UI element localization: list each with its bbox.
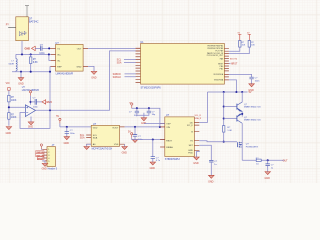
svg-text:DD: DD: [190, 122, 194, 124]
svg-text:VIN: VIN: [6, 83, 10, 85]
capacitor C? 1u at SET: [209, 160, 213, 162]
svg-text:MCP4725A0T-E/CH: MCP4725A0T-E/CH: [92, 148, 113, 151]
svg-text:BOOT0: BOOT0: [230, 58, 238, 60]
ground GND below op-amp: [30, 117, 32, 122]
svg-text:GND: GND: [193, 162, 199, 165]
wire driver SET to C? 1u: [199, 145, 211, 160]
svg-text:100K: 100K: [11, 100, 17, 102]
wire base rail: [223, 92, 225, 126]
MCU U1 left pin names: [0, 0, 1, 1]
resistor R? inline on OUT: [256, 159, 261, 161]
svg-text:100n: 100n: [255, 80, 261, 82]
svg-text:1.0K: 1.0K: [227, 130, 232, 132]
svg-text:ST8R00W05J: ST8R00W05J: [165, 158, 181, 161]
svg-text:OUT: OUT: [283, 159, 289, 162]
svg-text:REF: REF: [57, 66, 62, 68]
svg-text:VOUT: VOUT: [112, 127, 119, 129]
ground at driver GND pin: [197, 151, 200, 157]
svg-text:RBIAS: RBIAS: [166, 146, 173, 149]
svg-text:5V: 5V: [249, 91, 252, 94]
svg-text:MMBT3904LT1G: MMBT3904LT1G: [244, 107, 261, 109]
svg-text:Header 5: Header 5: [48, 168, 58, 171]
transistor Q? PNP: [224, 118, 237, 120]
wire MOSFET source to OUT: [242, 159, 284, 161]
wire driver YS to MOSFET gate: [199, 141, 237, 142]
ferrite bead FB?: [15, 54, 17, 58]
svg-text:100n: 100n: [70, 133, 76, 135]
ground at 4.7u cap: [150, 162, 156, 165]
wire VSS to 5V rail: [229, 80, 237, 92]
svg-text:PGD: PGD: [188, 152, 193, 154]
svg-text:GND: GND: [64, 142, 70, 145]
svg-text:GND: GND: [265, 177, 271, 180]
wire 5V rail to DAC VDD: [60, 126, 91, 128]
svg-text:VDD/VDDA: VDD/VDDA: [213, 73, 224, 76]
capacitor C? 100n at VOUT: [134, 127, 136, 135]
svg-text:VIN: VIN: [166, 127, 170, 129]
svg-text:LM4041AIDBVR: LM4041AIDBVR: [56, 72, 74, 75]
svg-text:SWCLK: SWCLK: [113, 76, 122, 79]
svg-text:SDA: SDA: [93, 136, 98, 139]
svg-text:GND: GND: [91, 77, 97, 80]
ground at VOUT cap: [132, 140, 138, 143]
wire VSP to GND: [144, 123, 165, 125]
wire op-amp output to MCU pin2: [36, 51, 137, 110]
power 5V of DAC: [59, 118, 61, 123]
wire VBUS top pin of D?: [25, 6, 29, 17]
driver U? body: [165, 117, 195, 157]
svg-text:6.8K: 6.8K: [33, 62, 38, 64]
ground at DAC A0: [87, 144, 92, 146]
MCU U1 left pin stubs: [136, 48, 141, 82]
MOSFET Q? FDN5618PZ: [237, 142, 239, 147]
ground at DAC VSS: [124, 144, 126, 146]
svg-text:SDA: SDA: [117, 62, 122, 65]
svg-text:GND: GND: [77, 66, 82, 68]
capacitor C? 100n (top left): [35, 47, 50, 49]
svg-text:GND: GND: [18, 82, 24, 85]
wire rail down to driver DD pin: [199, 92, 207, 122]
svg-text:GND: GND: [46, 101, 52, 104]
svg-text:FDN5618PZ: FDN5618PZ: [246, 146, 259, 148]
svg-text:REXT: REXT: [166, 141, 172, 143]
svg-text:MMBT3906LT1G: MMBT3906LT1G: [244, 120, 261, 122]
ground at C? 1u: [209, 175, 215, 178]
capacitor C? 30p left: [136, 107, 138, 109]
svg-text:NRST: NRST: [38, 158, 44, 160]
svg-text:GND: GND: [122, 152, 128, 155]
capacitor C? 1u at OUT: [267, 160, 269, 164]
svg-text:SDA_R: SDA_R: [195, 117, 202, 120]
svg-text:OUT: OUT: [77, 48, 82, 50]
MCU U1 right pin stubs: [224, 49, 229, 80]
svg-text:BAT54C: BAT54C: [29, 19, 39, 23]
pin stub U? pin1: [50, 47, 56, 49]
ground GND of divider: [6, 127, 12, 130]
wire left pin of D? with port P?: [8, 27, 16, 29]
svg-text:IN-: IN-: [57, 60, 60, 62]
wire DAC VOUT to U? VSP: [125, 126, 165, 128]
power 5V to U? VIN: [131, 133, 133, 138]
svg-text:VSS: VSS: [114, 144, 119, 146]
ground GND of U?: [88, 66, 94, 71]
resistor R? 1.0K: [223, 126, 225, 133]
svg-text:PA8: PA8: [220, 57, 223, 60]
pin stubs U? left: [51, 48, 89, 66]
svg-text:600R: 600R: [9, 63, 15, 65]
resistor R? 6.8K: [30, 54, 32, 57]
wire node to U? pin3: [49, 54, 51, 60]
svg-text:GND: GND: [208, 181, 214, 184]
resistor R? 100K upper: [8, 95, 10, 102]
diode D? BAT54C body: [16, 17, 28, 41]
capacitor C? 30p right: [148, 107, 150, 109]
DAC U? MCP4725 body: [91, 125, 119, 146]
net label SWDIO / SWCLK at MCU: [125, 74, 136, 77]
power 3V3 at J? pin1: [40, 144, 42, 149]
DAC pin stubs: [86, 127, 124, 144]
svg-text:5V: 5V: [56, 116, 59, 118]
ground GND at VDD cap: [249, 84, 255, 87]
svg-text:GND: GND: [25, 47, 31, 50]
svg-text:GND: GND: [42, 169, 47, 171]
wire REF node vertical: [49, 66, 51, 110]
capacitor C? 100n at VDD: [229, 74, 252, 77]
driver U? pin stubs: [160, 122, 199, 150]
connector J? pin stubs: [42, 149, 47, 161]
svg-text:I2C_F: I2C_F: [187, 125, 194, 127]
net label NRST: [229, 63, 231, 65]
svg-text:PB1: PB1: [220, 69, 224, 71]
ground between caps: [143, 115, 145, 118]
op-amp U? LM4041 box: [56, 44, 84, 71]
wire node row to U? pin2: [16, 53, 51, 55]
MCU U1 right pin names: [207, 45, 224, 81]
ground at OUT cap: [265, 172, 271, 175]
wire lower node rail: [12, 66, 51, 71]
MCU U1 STM32 body: [141, 44, 225, 85]
svg-text:VSP: VSP: [166, 123, 171, 125]
svg-text:NRST: NRST: [231, 63, 238, 66]
svg-text:STM32G030F6P6: STM32G030F6P6: [141, 86, 162, 89]
transistor Q? NPN: [224, 106, 237, 108]
svg-text:U?: U?: [55, 41, 59, 45]
svg-text:VDD: VDD: [93, 127, 98, 129]
svg-text:U1: U1: [140, 40, 144, 44]
wire C? to U? pin1: [48, 47, 50, 49]
svg-text:PC15/OSC32_OUT: PC15/OSC32_OUT: [207, 55, 224, 57]
wire U? OUT to MCU pin1: [88, 47, 136, 49]
svg-text:SET: SET: [189, 145, 194, 147]
wire divider tap to op-amp: [9, 106, 26, 108]
capacitor C? 4.7u at U? VIN: [152, 140, 154, 157]
resistor R? 100K lower: [8, 113, 10, 120]
connector J? header body: [47, 147, 55, 167]
power 5V of op-amp with capacitor C? 100n: [29, 91, 31, 96]
wire 5V rail above transistors: [208, 91, 248, 93]
ground GND at DAC VDD cap: [64, 137, 70, 140]
svg-text:100n: 100n: [33, 107, 39, 109]
svg-text:GND: GND: [6, 132, 12, 135]
svg-text:SCL_R: SCL_R: [195, 115, 202, 117]
svg-text:100K: 100K: [11, 117, 17, 119]
wire from D? bottom to node: [21, 41, 23, 55]
capacitor C? 100n at DAC VDD: [66, 127, 68, 133]
wire feedback loop of op-amp: [20, 110, 50, 128]
ground GND on rail: [20, 72, 22, 78]
svg-text:SDA: SDA: [80, 137, 85, 140]
net labels SWDIO SWCLK NRST at J?: [36, 152, 44, 160]
svg-text:5V: 5V: [128, 131, 131, 133]
ground at J? pin5: [42, 161, 45, 164]
net label SCL / SDA at MCU: [124, 60, 136, 63]
svg-text:VSS/VSSA: VSS/VSSA: [214, 79, 224, 82]
svg-text:GND: GND: [150, 167, 156, 170]
